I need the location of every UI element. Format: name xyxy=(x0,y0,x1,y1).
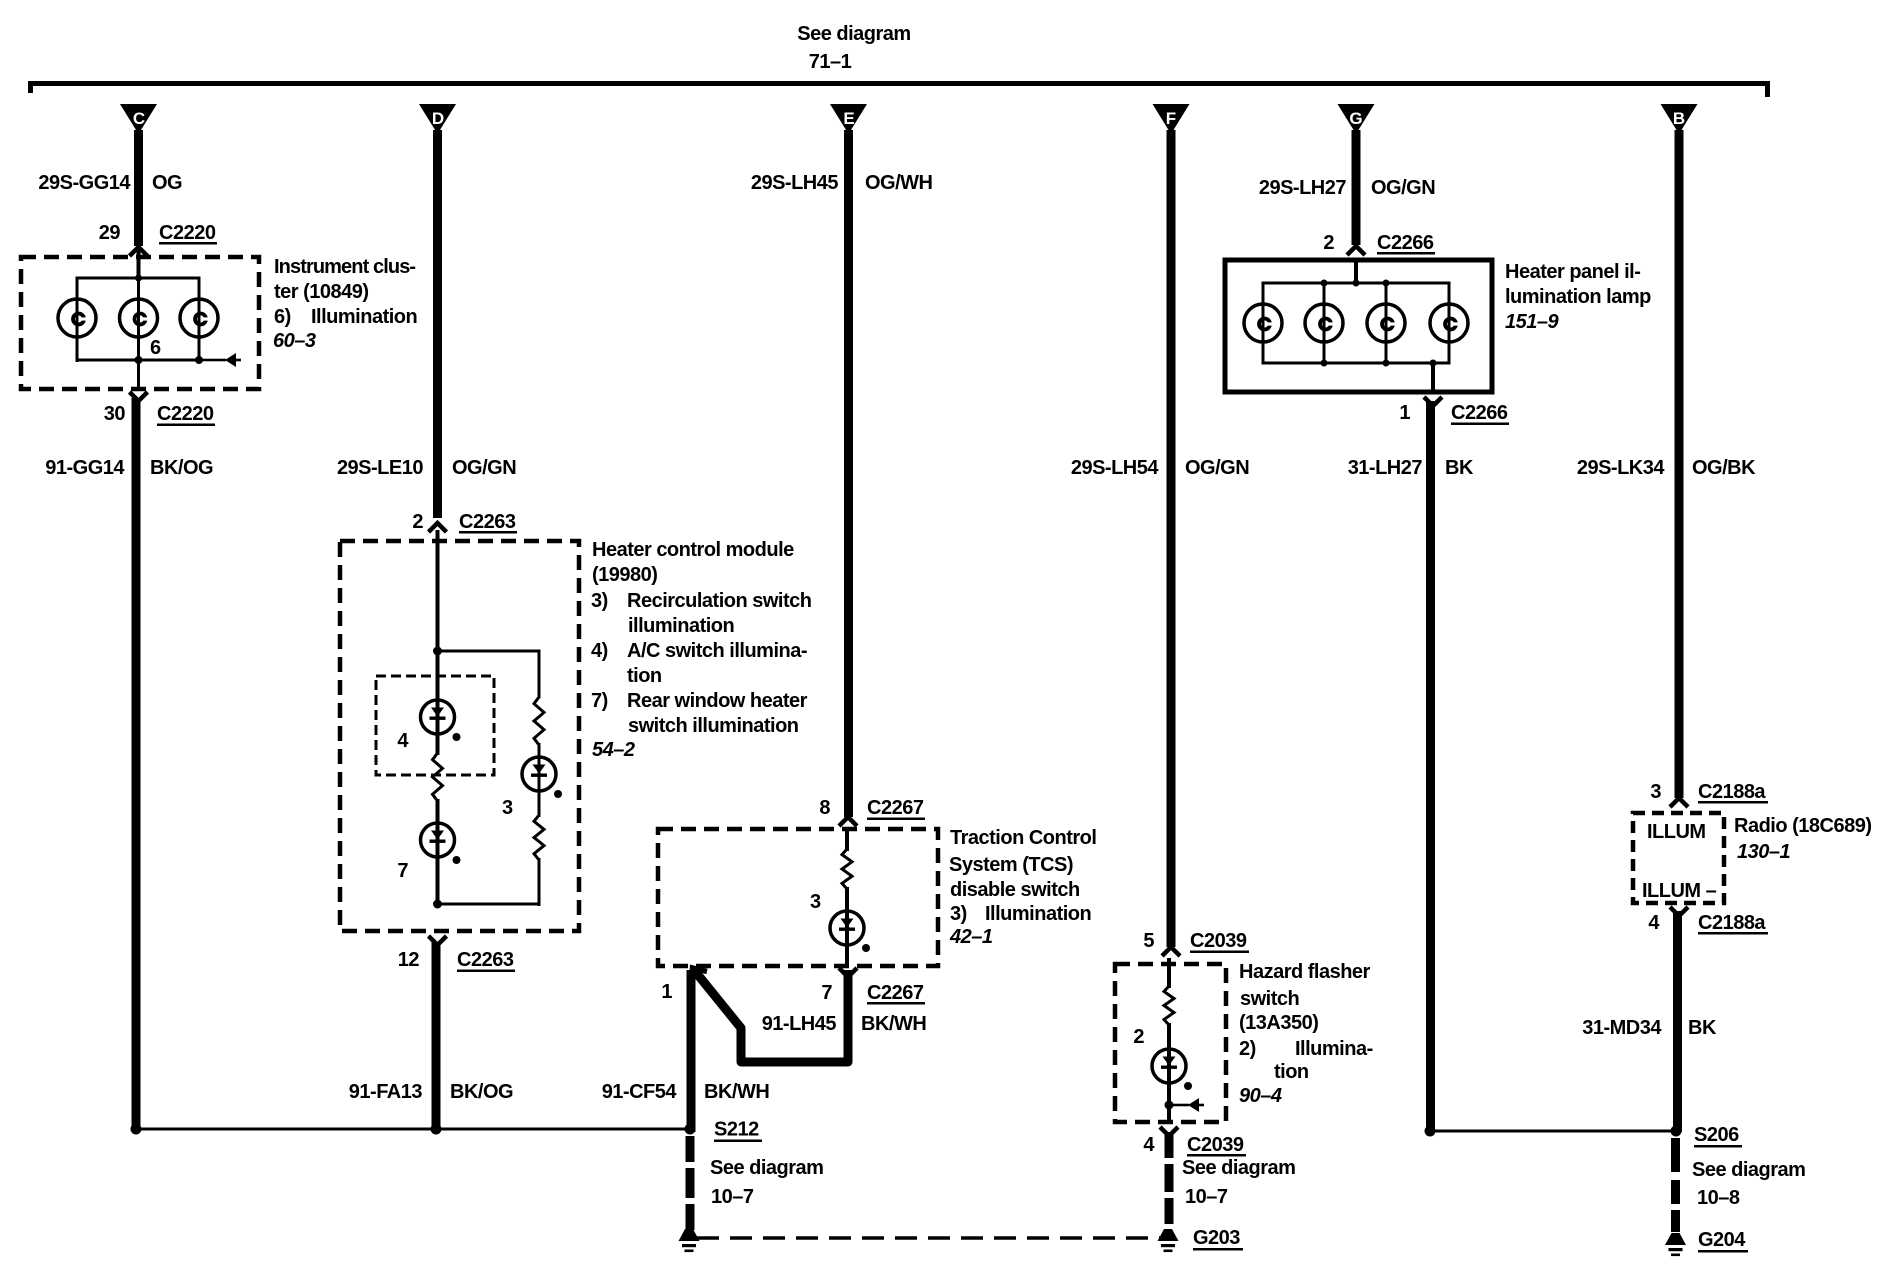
ground G204 (symbol) xyxy=(1665,1233,1686,1256)
label wire 29S-GG14 OG xyxy=(38,172,182,194)
svg-text:BK/WH: BK/WH xyxy=(704,1081,769,1103)
svg-text:(19980): (19980) xyxy=(592,564,657,586)
svg-text:lumination lamp: lumination lamp xyxy=(1505,286,1651,308)
label: See diagram 10-7 (S212) xyxy=(710,1157,823,1208)
label pin 4 / C2039 xyxy=(1143,1134,1246,1157)
svg-text:G: G xyxy=(1349,109,1362,128)
svg-text:OG: OG xyxy=(152,172,182,194)
svg-text:ILLUM: ILLUM xyxy=(1647,821,1706,843)
connector arrow pin 8 C2267 xyxy=(839,817,857,826)
wire module right branch bottom xyxy=(438,858,541,906)
svg-text:S206: S206 xyxy=(1694,1124,1739,1146)
svg-text:54–2: 54–2 xyxy=(592,739,635,761)
resistor (module center) xyxy=(433,753,443,801)
svg-text:Radio (18C689): Radio (18C689) xyxy=(1734,815,1872,837)
svg-text:6): 6) xyxy=(274,306,291,328)
label S206 xyxy=(1694,1124,1742,1148)
label: Heater control module text xyxy=(591,539,812,761)
label wire 31-LH27 BK xyxy=(1348,457,1474,479)
svg-text:130–1: 130–1 xyxy=(1737,841,1790,863)
wire panel bus to pin 1 xyxy=(1431,363,1435,392)
connector arrow pin 1 C2267 xyxy=(692,968,708,983)
svg-text:D: D xyxy=(432,109,444,128)
hazard case arrow xyxy=(1169,1098,1204,1112)
svg-text:tion: tion xyxy=(627,665,662,687)
label pin 5 / C2039 xyxy=(1143,930,1249,953)
svg-text:OG/WH: OG/WH xyxy=(865,172,933,194)
svg-text:BK/WH: BK/WH xyxy=(861,1013,926,1035)
label wire 91-CF54 BK/WH xyxy=(602,1081,770,1103)
lamp LED 4 (A/C switch illumination) xyxy=(421,700,461,741)
svg-text:Heater control module: Heater control module xyxy=(592,539,794,561)
svg-text:BK: BK xyxy=(1688,1017,1717,1039)
resistor (module right top) xyxy=(534,697,544,745)
wire 29S-LH54 OG/GN (F drop) xyxy=(1167,130,1176,947)
svg-text:OG/GN: OG/GN xyxy=(1185,457,1249,479)
svg-text:1: 1 xyxy=(661,981,672,1003)
svg-text:91-GG14: 91-GG14 xyxy=(45,457,125,479)
node: wire D end xyxy=(431,1124,442,1135)
svg-text:29S-LH45: 29S-LH45 xyxy=(751,172,839,194)
node: wire C end xyxy=(131,1124,142,1135)
connector arrow pin 4 C2039 xyxy=(1160,1127,1178,1136)
svg-text:S212: S212 xyxy=(714,1119,759,1141)
svg-text:4: 4 xyxy=(397,730,409,752)
svg-text:151–9: 151–9 xyxy=(1505,311,1559,333)
svg-text:tion: tion xyxy=(1274,1061,1309,1083)
cluster bulb stubs bottom xyxy=(76,336,201,362)
svg-text:C2188a: C2188a xyxy=(1698,912,1766,934)
wire 31-MD34 BK (radio to S206) xyxy=(1673,911,1682,1132)
node: panel bottom bus dots xyxy=(1321,360,1437,367)
node: cluster bottom bus junction 3 xyxy=(195,356,203,364)
svg-text:3: 3 xyxy=(502,797,513,819)
lamp: cluster bulb 1 xyxy=(58,299,96,337)
node: panel top bus dots xyxy=(1321,280,1390,287)
svg-text:Instrument clus-: Instrument clus- xyxy=(274,256,415,278)
lamp: cluster bulb 3 xyxy=(180,299,218,337)
svg-text:29S-LK34: 29S-LK34 xyxy=(1577,457,1666,479)
component box: Heater panel illumination lamp (solid) xyxy=(1225,260,1492,392)
svg-text:Illumination: Illumination xyxy=(985,903,1091,925)
label pin 29 / C2220 xyxy=(99,222,217,245)
wire cluster bulb2 to pin 30 xyxy=(137,360,140,389)
label pin 8 / C2267 xyxy=(819,797,925,820)
svg-text:OG/GN: OG/GN xyxy=(452,457,516,479)
node: splice S206 xyxy=(1671,1126,1682,1137)
component box: TCS disable switch (dashed) xyxy=(658,829,938,966)
svg-text:A/C switch illumina-: A/C switch illumina- xyxy=(627,640,807,662)
label wire 31-MD34 BK xyxy=(1582,1017,1717,1039)
svg-text:C2039: C2039 xyxy=(1190,930,1247,952)
svg-text:71–1: 71–1 xyxy=(809,51,852,73)
lamp: panel bulb 4 xyxy=(1430,304,1468,342)
svg-text:C2263: C2263 xyxy=(457,949,514,971)
svg-text:C2266: C2266 xyxy=(1451,402,1508,424)
connector arrow pin 30 C2220 xyxy=(130,392,148,401)
ground G203 (left symbol) xyxy=(679,1229,700,1252)
label pin 12 / C2263 xyxy=(398,949,515,972)
connector triangle G xyxy=(1338,104,1375,134)
svg-text:switch: switch xyxy=(1240,988,1299,1010)
svg-text:C: C xyxy=(133,109,145,128)
svg-text:31-MD34: 31-MD34 xyxy=(1582,1017,1662,1039)
svg-text:Rear window heater: Rear window heater xyxy=(627,690,808,712)
svg-text:91-CF54: 91-CF54 xyxy=(602,1081,678,1103)
node: splice S212 xyxy=(685,1124,696,1135)
wire inside TCS box xyxy=(845,827,849,851)
node: module branch junction top xyxy=(433,647,442,656)
label: Radio text xyxy=(1734,815,1872,863)
svg-text:30: 30 xyxy=(104,403,126,425)
lamp LED 7 (rear window heater switch illumination) xyxy=(421,823,461,864)
svg-text:Heater panel il-: Heater panel il- xyxy=(1505,261,1640,283)
node: cluster bottom bus junction 2 xyxy=(135,356,143,364)
component box: Heater control module (dashed) xyxy=(340,541,579,931)
panel inner top bus xyxy=(1262,282,1451,285)
wire: S212 to G203 (dashed) xyxy=(686,1136,695,1230)
svg-text:4: 4 xyxy=(1648,912,1660,934)
wire 91-CF54 BK/WH (pin1 to S212) xyxy=(687,970,696,1132)
svg-text:C2267: C2267 xyxy=(867,982,924,1004)
wire 31-LH27 BK (panel to S206 line) xyxy=(1426,401,1435,1131)
connector arrow pin 29 C2220 xyxy=(130,247,148,256)
connector arrow pin 2 C2263 xyxy=(429,523,447,532)
svg-text:G203: G203 xyxy=(1193,1227,1240,1249)
svg-text:ter (10849): ter (10849) xyxy=(274,281,369,303)
label pin 4 / C2188a xyxy=(1648,912,1768,935)
wire inside cluster (pin29 to bus) xyxy=(137,250,141,278)
svg-text:29S-LH54: 29S-LH54 xyxy=(1071,457,1160,479)
cluster bulb stubs top xyxy=(76,278,201,302)
inner dashed box item 4 xyxy=(376,676,494,775)
svg-text:90–4: 90–4 xyxy=(1239,1085,1282,1107)
svg-text:See diagram: See diagram xyxy=(1182,1157,1295,1179)
svg-text:illumination: illumination xyxy=(628,615,734,637)
label wire 91-LH45 BK/WH xyxy=(762,1013,927,1035)
svg-text:Traction Control: Traction Control xyxy=(950,827,1096,849)
svg-text:2: 2 xyxy=(412,511,423,533)
svg-text:BK/OG: BK/OG xyxy=(450,1081,513,1103)
svg-text:Hazard flasher: Hazard flasher xyxy=(1239,961,1371,983)
wire: top bus to diagram 71-1 xyxy=(28,81,1770,97)
svg-text:7: 7 xyxy=(397,860,408,882)
node: module branch junction bottom xyxy=(433,900,442,909)
svg-text:2): 2) xyxy=(1239,1038,1256,1060)
label: TCS text xyxy=(949,827,1096,948)
svg-text:Illumination: Illumination xyxy=(311,306,417,328)
label: Heater panel illumination lamp text xyxy=(1505,261,1651,333)
wire 29S-LH45 OG/WH (E drop) xyxy=(844,130,853,817)
label pin 1 / C2266 xyxy=(1399,402,1509,425)
connector arrow pin 1 C2266 xyxy=(1424,397,1442,406)
connector triangle F xyxy=(1153,104,1190,134)
svg-text:91-LH45: 91-LH45 xyxy=(762,1013,837,1035)
svg-text:C2220: C2220 xyxy=(157,403,214,425)
connector arrow pin 12 C2263 xyxy=(429,936,447,945)
svg-text:BK: BK xyxy=(1445,457,1474,479)
label wire 91-FA13 BK/OG xyxy=(349,1081,513,1103)
wire 91-LH45 BK/WH (pin7 loop to pin1) xyxy=(694,970,848,1062)
wire 29S-LK34 OG/BK (B drop) xyxy=(1675,130,1684,798)
label: See diagram 10-8 (S206) xyxy=(1692,1159,1805,1209)
label: See diagram 71-1 xyxy=(797,23,910,73)
svg-text:B: B xyxy=(1673,109,1685,128)
lamp: panel bulb 2 xyxy=(1305,304,1343,342)
svg-text:3: 3 xyxy=(1650,781,1661,803)
svg-text:C2188a: C2188a xyxy=(1698,781,1766,803)
svg-text:BK/OG: BK/OG xyxy=(150,457,213,479)
svg-text:See diagram: See diagram xyxy=(1692,1159,1805,1181)
svg-text:E: E xyxy=(843,109,854,128)
cluster inner bottom bus xyxy=(76,359,201,362)
svg-text:C2220: C2220 xyxy=(159,222,216,244)
svg-text:C2039: C2039 xyxy=(1187,1134,1244,1156)
svg-text:42–1: 42–1 xyxy=(949,926,993,948)
connector arrow pin 5 C2039 xyxy=(1162,947,1180,956)
svg-text:10–7: 10–7 xyxy=(711,1186,754,1208)
connector triangle D xyxy=(419,104,456,134)
svg-text:See diagram: See diagram xyxy=(797,23,910,45)
svg-text:8: 8 xyxy=(819,797,830,819)
svg-text:4: 4 xyxy=(1143,1134,1155,1156)
wire panel pin2 to bus xyxy=(1354,258,1358,284)
label pin 2 / C2266 xyxy=(1323,232,1435,255)
lamp: panel bulb 3 xyxy=(1367,304,1405,342)
label pin 2 / C2263 xyxy=(412,511,517,534)
wire 29S-LE10 OG/GN (D drop) xyxy=(433,130,442,518)
svg-text:7): 7) xyxy=(591,690,608,712)
connector arrow pin 7 C2267 xyxy=(839,968,857,977)
lamp LED 3 (recirculation switch illumination) xyxy=(522,743,562,817)
node: wire 31-LH27 end xyxy=(1425,1126,1436,1137)
svg-text:Recirculation switch: Recirculation switch xyxy=(627,590,812,612)
label S212 xyxy=(714,1119,762,1143)
resistor (TCS) xyxy=(842,849,852,889)
wire module right branch top xyxy=(438,650,541,699)
svg-text:29S-LE10: 29S-LE10 xyxy=(337,457,423,479)
svg-text:29: 29 xyxy=(99,222,121,244)
connector arrow pin 4 C2188a xyxy=(1670,907,1688,916)
wire 91-GG14 BK/OG (C to S212 line) xyxy=(132,398,141,1129)
wire 91-FA13 BK/OG (module to S212 line) xyxy=(432,942,441,1132)
svg-text:10–8: 10–8 xyxy=(1697,1187,1740,1209)
svg-text:C2266: C2266 xyxy=(1377,232,1434,254)
svg-text:OG/GN: OG/GN xyxy=(1371,177,1435,199)
svg-text:6: 6 xyxy=(150,337,161,359)
node: cluster top bus junction xyxy=(135,275,142,282)
panel bulb stubs top xyxy=(1262,283,1451,306)
panel bulb stubs bottom xyxy=(1262,340,1451,363)
label pin 7 / C2267 xyxy=(821,982,925,1005)
label G204 xyxy=(1698,1229,1748,1253)
connector arrow pin 3 C2188a xyxy=(1670,798,1688,807)
label pin 30 / C2220 xyxy=(104,403,215,426)
svg-text:F: F xyxy=(1166,109,1176,128)
connector triangle E xyxy=(830,104,867,134)
lamp: panel bulb 1 xyxy=(1244,304,1282,342)
svg-text:G204: G204 xyxy=(1698,1229,1746,1251)
svg-text:29S-LH27: 29S-LH27 xyxy=(1259,177,1347,199)
svg-text:Illumina-: Illumina- xyxy=(1295,1038,1373,1060)
svg-text:See diagram: See diagram xyxy=(710,1157,823,1179)
resistor (module right bottom) xyxy=(534,815,544,860)
wire inside hazard box xyxy=(1167,958,1171,988)
svg-text:4): 4) xyxy=(591,640,608,662)
panel inner bottom bus xyxy=(1262,362,1451,365)
component box: Instrument cluster (dashed) xyxy=(21,257,259,389)
svg-text:ILLUM –: ILLUM – xyxy=(1642,880,1717,902)
label wire 29S-LH54 OG/GN xyxy=(1071,457,1249,479)
label: See diagram 10-7 (hazard) xyxy=(1182,1157,1295,1208)
svg-text:disable switch: disable switch xyxy=(950,879,1080,901)
cluster case arrow (bottom bus extension) xyxy=(199,353,241,367)
node: hazard case junction xyxy=(1165,1101,1174,1110)
svg-text:C2263: C2263 xyxy=(459,511,516,533)
label wire 29S-LH27 OG/GN xyxy=(1259,177,1435,199)
connector arrow pin 2 C2266 xyxy=(1347,246,1365,255)
wire: right splice bus (31-LH27 to S206) xyxy=(1429,1130,1677,1133)
component box: Radio (dashed) xyxy=(1633,813,1724,903)
cluster inner top bus xyxy=(76,277,201,280)
wire: S206 to G204 (dashed) xyxy=(1671,1138,1680,1232)
label G203 xyxy=(1193,1227,1243,1251)
svg-text:C2267: C2267 xyxy=(867,797,924,819)
label: Instrument cluster text xyxy=(273,256,417,352)
svg-text:2: 2 xyxy=(1323,232,1334,254)
component box: Hazard flasher switch (dashed) xyxy=(1115,964,1226,1122)
svg-text:OG/BK: OG/BK xyxy=(1692,457,1756,479)
resistor (hazard) xyxy=(1164,986,1174,1025)
connector triangle B xyxy=(1661,104,1698,134)
lamp LED 3 (TCS illumination) xyxy=(830,911,870,952)
label wire 29S-LK34 OG/BK xyxy=(1577,457,1756,479)
wire 29S-GG14 OG (C drop) xyxy=(134,130,143,246)
label: Hazard flasher switch text xyxy=(1239,961,1373,1107)
label wire 29S-LH45 OG/WH xyxy=(751,172,933,194)
svg-text:(13A350): (13A350) xyxy=(1239,1012,1318,1034)
connector triangle C xyxy=(120,104,157,134)
svg-text:7: 7 xyxy=(821,982,832,1004)
svg-text:29S-GG14: 29S-GG14 xyxy=(38,172,131,194)
wire: hazard pin 4 to G203 (solid then dashed) xyxy=(1165,1132,1174,1224)
svg-text:2: 2 xyxy=(1133,1026,1144,1048)
wire: left splice bus (C, D, CF54 junction) xyxy=(135,1128,691,1131)
wire 29S-LH27 OG/GN (G drop) xyxy=(1352,130,1361,245)
svg-text:3: 3 xyxy=(810,891,821,913)
svg-text:10–7: 10–7 xyxy=(1185,1186,1228,1208)
svg-text:91-FA13: 91-FA13 xyxy=(349,1081,423,1103)
svg-text:12: 12 xyxy=(398,949,420,971)
svg-text:5: 5 xyxy=(1143,930,1154,952)
wire inside module (main branch) xyxy=(436,530,440,755)
lamp: cluster bulb 2 xyxy=(120,278,158,360)
svg-text:switch illumination: switch illumination xyxy=(628,715,799,737)
label wire 91-GG14 BK/OG xyxy=(45,457,213,479)
svg-text:System (TCS): System (TCS) xyxy=(949,854,1073,876)
wire: ground bus G203 (dashed) xyxy=(697,1236,1164,1240)
svg-text:3): 3) xyxy=(950,903,967,925)
label wire 29S-LE10 OG/GN xyxy=(337,457,516,479)
svg-text:3): 3) xyxy=(591,590,608,612)
svg-text:31-LH27: 31-LH27 xyxy=(1348,457,1423,479)
lamp LED 2 (hazard illumination) xyxy=(1152,1049,1192,1090)
ground G203 (right symbol) xyxy=(1158,1229,1179,1252)
svg-text:1: 1 xyxy=(1399,402,1410,424)
label pin 3 / C2188a xyxy=(1650,781,1768,804)
svg-text:60–3: 60–3 xyxy=(273,330,316,352)
